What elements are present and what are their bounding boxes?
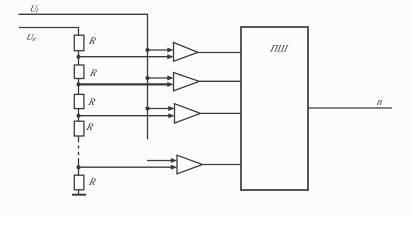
- svg-text:п: п: [376, 97, 384, 108]
- svg-text:Ui: Ui: [29, 4, 40, 15]
- svg-text:R: R: [87, 36, 98, 47]
- svg-text:R: R: [86, 97, 97, 108]
- svg-text:R: R: [88, 68, 99, 79]
- svg-text:R: R: [87, 177, 98, 188]
- svg-text:ПШ: ПШ: [268, 44, 289, 55]
- svg-text:Ue: Ue: [25, 32, 37, 43]
- svg-text:R: R: [84, 122, 95, 133]
